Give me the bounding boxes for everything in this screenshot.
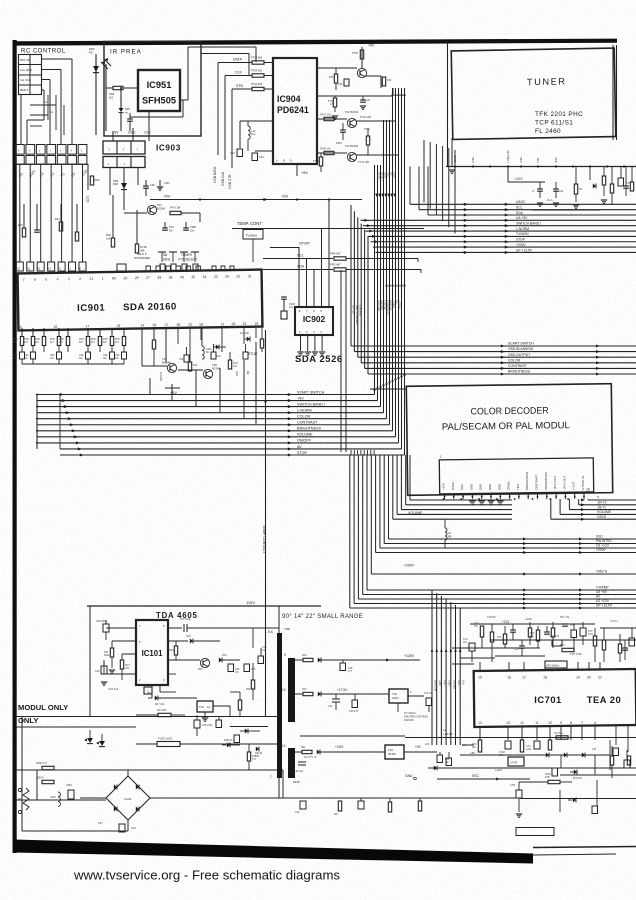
svg-text:115V: 115V xyxy=(246,600,255,605)
wire decoder pin stub 8 xyxy=(509,493,511,499)
svg-text:+12V: +12V xyxy=(502,620,510,624)
connector keyboard cell top 4 xyxy=(47,145,56,155)
diode below d2 xyxy=(574,769,577,774)
capacitor C7A xyxy=(469,643,475,651)
svg-text:CONTRAST: CONTRAST xyxy=(297,421,318,425)
wire bottom right drop b xyxy=(596,780,598,806)
wire bundle-B line 12 xyxy=(362,455,364,595)
wire psu bottom drops xyxy=(282,770,284,798)
component tuner sub a xyxy=(610,184,613,193)
svg-text:26: 26 xyxy=(225,275,229,279)
svg-text:C07 100p: C07 100p xyxy=(180,618,191,621)
wire bundle-A line 7 xyxy=(392,88,394,431)
resistor R906 base xyxy=(59,222,62,231)
svg-text:L04: L04 xyxy=(462,744,467,747)
IC902 box xyxy=(295,307,333,335)
svg-text:620k: 620k xyxy=(104,654,110,657)
wire resistor bottom 4 xyxy=(58,346,60,353)
ground ic904 x4 xyxy=(332,115,338,117)
wire bundle-B line 14 xyxy=(353,455,355,604)
capacitor extra b701 xyxy=(510,629,516,631)
resistor P06r xyxy=(382,77,385,86)
arrow right-bus -(R-Y) xyxy=(581,503,585,506)
wire trf sec y752 xyxy=(295,751,302,753)
svg-text:PTN 1M: PTN 1M xyxy=(170,206,181,210)
wire right-bus V-RAMP xyxy=(510,589,636,591)
wire ic904 right pin12 xyxy=(317,118,347,120)
svg-text:VOLUME: VOLUME xyxy=(597,510,612,514)
wire keyboard column 6 xyxy=(71,164,73,262)
capacitor C9A psu xyxy=(103,624,109,632)
wire scart-bus OSD OUTPUT xyxy=(358,356,636,358)
svg-text:33: 33 xyxy=(214,275,218,279)
svg-text:21: 21 xyxy=(598,676,602,680)
resistor R14 psu xyxy=(158,713,171,716)
wire decoder pin stub 2 xyxy=(453,493,455,499)
wire ic701 left entry rails xyxy=(452,647,462,649)
svg-text:STANDARD: STANDARD xyxy=(134,256,151,260)
wire resistor bottom 6 xyxy=(87,346,89,353)
capacitor C951 xyxy=(127,118,133,120)
svg-text:TCP 611/S1: TCP 611/S1 xyxy=(535,120,573,127)
wire ic701 bottom long rail xyxy=(430,767,560,769)
arrow bundle-A top 7 xyxy=(391,92,394,96)
svg-text:C6L: C6L xyxy=(559,190,564,193)
svg-text:32: 32 xyxy=(236,274,240,278)
wire pin24 down xyxy=(243,328,245,344)
ground tuner xyxy=(449,169,455,171)
svg-text:V-RAMP: V-RAMP xyxy=(596,586,609,590)
capacitor C17 trf xyxy=(340,663,346,671)
ir arrows into photodiode xyxy=(101,62,108,69)
wire below ic701 rail xyxy=(405,737,636,739)
svg-text:R23: R23 xyxy=(302,654,307,657)
wire bundle-A line 10 xyxy=(401,88,403,449)
svg-text:PT0A 5k6: PT0A 5k6 xyxy=(251,82,263,86)
wire bundle-C line 4 xyxy=(445,599,447,745)
svg-text:D0: D0 xyxy=(169,228,173,232)
svg-text:IC903: IC903 xyxy=(156,144,181,153)
svg-text:↑: ↑ xyxy=(39,148,41,153)
svg-text:85: 85 xyxy=(112,276,116,280)
wire tuner-bus +200V xyxy=(373,246,636,248)
wire bundle-B upper stub 7 xyxy=(370,450,372,455)
svg-text:14: 14 xyxy=(478,721,482,725)
wire stb xyxy=(232,88,252,90)
svg-text:5,6: 5,6 xyxy=(268,630,273,634)
svg-text:SDA 2526: SDA 2526 xyxy=(295,353,343,364)
wire ic701 bottom pin 13 xyxy=(507,726,509,740)
wire bundle-B upper stub 1 xyxy=(350,450,352,455)
svg-text:A.C/AC: A.C/AC xyxy=(159,372,163,381)
svg-text:FL 2460: FL 2460 xyxy=(535,128,561,135)
svg-text:SDA 20160: SDA 20160 xyxy=(123,301,177,313)
svg-text:36: 36 xyxy=(176,323,180,327)
svg-text:PS1: PS1 xyxy=(169,225,174,229)
wire keyboard column 3 xyxy=(40,164,42,262)
wire trf top feed xyxy=(278,606,280,634)
svg-text:16: 16 xyxy=(507,676,511,680)
svg-text:4707 F?08: 4707 F?08 xyxy=(570,653,582,656)
frame top border line xyxy=(15,39,617,46)
svg-text:90° 14″ 22″ SMALL RANGΕ: 90° 14″ 22″ SMALL RANGΕ xyxy=(282,614,363,620)
svg-text:+5V: +5V xyxy=(281,194,289,199)
svg-text:PR9: PR9 xyxy=(109,92,115,96)
diode tun4 xyxy=(593,183,596,188)
svg-text:MODUL ONLY: MODUL ONLY xyxy=(18,703,68,712)
wire matrix row2 xyxy=(42,69,62,71)
wire ic101 left pin b xyxy=(112,640,136,642)
capacitor bottom1 xyxy=(300,801,306,809)
wire ic701 bottom pin 14 xyxy=(479,726,481,740)
svg-text:P40: P40 xyxy=(387,79,392,82)
svg-text:7: 7 xyxy=(23,278,25,282)
wire +5v row xyxy=(150,199,362,201)
svg-text:GND: GND xyxy=(488,484,492,490)
svg-text:4k7: 4k7 xyxy=(24,341,29,344)
svg-text:C90: C90 xyxy=(179,359,184,361)
capacitor C914 xyxy=(110,352,115,359)
wire psu rail2 xyxy=(16,726,136,728)
wire drop to bus f xyxy=(255,342,257,425)
resistor R918 xyxy=(122,337,125,346)
resistor R907 xyxy=(22,228,25,237)
resistor R916 xyxy=(98,337,101,346)
svg-text:100n: 100n xyxy=(499,754,505,757)
svg-text:C47: C47 xyxy=(366,99,371,102)
ground psu t04 xyxy=(202,717,208,719)
wire bundle-B upper stub 5 xyxy=(363,450,365,455)
wire bundle-B line 2 xyxy=(405,455,407,505)
svg-text:+5V: +5V xyxy=(297,396,304,400)
wire +12v stub xyxy=(507,167,509,183)
resistor R917 xyxy=(228,360,231,369)
wire matrix row3 xyxy=(42,79,51,81)
wire bundle-A line 5 xyxy=(386,120,388,419)
svg-text:↑: ↑ xyxy=(60,148,62,153)
capacitor C70Z xyxy=(505,741,511,749)
junction dots +5v rail xyxy=(199,198,201,200)
svg-text:10n: 10n xyxy=(13,357,18,360)
svg-text:PT05: PT05 xyxy=(352,52,359,55)
svg-text:R08: R08 xyxy=(169,649,174,652)
wire row join under ic901 xyxy=(22,363,124,365)
capacitor C07 sym xyxy=(183,624,185,632)
svg-text:8: 8 xyxy=(570,721,572,725)
wire ic903 col b xyxy=(123,168,125,211)
svg-text:10n: 10n xyxy=(79,357,84,360)
wire decoder pin stub 3 xyxy=(462,493,464,499)
svg-text:22n: 22n xyxy=(190,228,195,232)
svg-text:Y OUT: Y OUT xyxy=(572,481,576,490)
wire resistor bottom 3 xyxy=(43,346,45,353)
resistor bottom2 xyxy=(338,801,341,811)
resistor R70d xyxy=(536,630,539,641)
arrow right-bus -(B-Y) xyxy=(581,508,585,511)
capacitor extra d701 xyxy=(571,630,577,638)
IC701 box xyxy=(474,669,636,727)
wire t01 collector up xyxy=(361,47,363,69)
svg-text:IC904: IC904 xyxy=(277,94,301,104)
svg-text:T04 BC546: T04 BC546 xyxy=(345,144,359,148)
COLOR DECODER box xyxy=(406,384,612,496)
wire psu rail3 xyxy=(16,769,283,771)
wire bundle-A line 4 xyxy=(383,120,385,413)
wire ic701 top pin 18 xyxy=(544,662,546,670)
ground decoder pin 5 xyxy=(479,500,485,502)
svg-text:BRIGHTNESS: BRIGHTNESS xyxy=(297,427,322,431)
svg-text:CTM: CTM xyxy=(510,784,515,787)
svg-text:S1G: S1G xyxy=(443,680,446,685)
svg-text:T93: T93 xyxy=(157,203,162,207)
svg-text:IR PREA: IR PREA xyxy=(110,49,142,56)
wire ic701 top rail4 xyxy=(460,657,495,659)
wire ic902 top pin5 xyxy=(328,200,330,307)
wire right-bus +200V xyxy=(510,552,636,554)
wire SDA b xyxy=(346,269,421,271)
connector keyboard cell bottom 6 xyxy=(68,156,77,165)
wire +5v stub xyxy=(171,384,173,388)
svg-text:·: · xyxy=(39,159,40,163)
wire matrix col extra xyxy=(20,95,22,145)
page edge bar (scan border, left) xyxy=(13,40,17,853)
wire bus-left joiner2 xyxy=(59,395,61,450)
arrow right-bus U4 +5V xyxy=(579,593,583,596)
wire bundle-B line 5 xyxy=(392,455,394,519)
wire bundle left cluster 2 xyxy=(345,270,347,452)
arrow up bundle SWITCH BAND I xyxy=(379,384,382,388)
connector ac input pin1 xyxy=(18,788,21,791)
wire ic701 bottom pin 11 xyxy=(536,726,538,740)
svg-text:SSC: SSC xyxy=(596,535,603,539)
decoder pin strip box xyxy=(439,458,593,494)
wire pin10 down xyxy=(255,328,257,338)
wire ic903 col a xyxy=(109,168,111,196)
bridge diode marks xyxy=(114,784,117,789)
capacitor c701b xyxy=(534,741,540,749)
arrow right-bus +55V H xyxy=(579,572,583,575)
wire right edge pair xyxy=(612,45,614,140)
svg-text:39: 39 xyxy=(157,276,161,280)
coil L10 xyxy=(248,126,250,139)
svg-text:SSC: SSC xyxy=(460,484,464,490)
arrow right-bus PAL/NTSC xyxy=(579,542,583,545)
wire pin50 down xyxy=(200,328,202,340)
svg-text:R70: R70 xyxy=(560,644,565,647)
svg-text:16: 16 xyxy=(53,325,57,329)
wire bundle-C line 3 xyxy=(440,596,442,745)
resistor R27 trf xyxy=(303,692,313,695)
svg-text:L40: L40 xyxy=(592,748,597,751)
arrow up bundle BRIGHTNESS xyxy=(391,378,394,382)
svg-text:R04+: R04+ xyxy=(246,688,252,691)
wire scart-bus bend 2 xyxy=(353,211,355,351)
wire ic701 feed left xyxy=(452,663,474,665)
wire bundle-B upper stub 4 xyxy=(360,450,362,455)
wire bus-left BRIGHTNESS xyxy=(37,430,393,432)
svg-text:31: 31 xyxy=(248,274,252,278)
resistor R74B xyxy=(135,244,138,253)
connector keyboard cell top 7 xyxy=(78,145,87,155)
wire ic101 right pin d xyxy=(168,673,176,675)
wire bundle-B upper stub 6 xyxy=(367,450,369,455)
wire ic701 top pin 17 xyxy=(523,662,525,670)
wire bundle-B line 3 xyxy=(400,455,402,510)
component bottom right small xyxy=(592,806,598,814)
svg-text:SCL: SCL xyxy=(297,254,304,258)
IC901 SDA 20160 label xyxy=(123,301,177,313)
wire rc horizontals xyxy=(30,104,56,106)
svg-text:C2b 470: C2b 470 xyxy=(349,710,359,713)
svg-text:6u8: 6u8 xyxy=(193,364,198,367)
arrows tuner bus left tips xyxy=(364,219,368,222)
arrow up bundle CONTRAST xyxy=(388,380,391,384)
svg-text:10n: 10n xyxy=(50,357,55,360)
resistor extra c701 xyxy=(551,628,554,637)
wire tuner-bus L-NORM xyxy=(366,230,636,232)
svg-text:R8: R8 xyxy=(448,534,452,538)
wire bridge left xyxy=(80,797,106,799)
svg-text:TINT: TINT xyxy=(516,483,520,490)
svg-text:↑: ↑ xyxy=(80,148,82,153)
arrow tuner-bus +200V xyxy=(464,246,468,249)
svg-text:DATA: DATA xyxy=(233,58,242,62)
svg-text:4k7: 4k7 xyxy=(91,341,96,344)
connector pin box 5 above IC901 xyxy=(58,262,65,271)
resistor R70b xyxy=(503,634,506,644)
wire ic701 bottom pin 9 xyxy=(560,726,562,740)
arrow up bundle AV xyxy=(400,374,403,378)
svg-text:9: 9 xyxy=(284,653,286,657)
svg-text:C90: C90 xyxy=(217,356,222,358)
svg-text:STOP: STOP xyxy=(297,451,308,455)
svg-text:+5V: +5V xyxy=(301,171,308,175)
capacitor C18 psu xyxy=(244,664,250,672)
svg-text:GND: GND xyxy=(479,484,483,490)
svg-text:CMR: CMR xyxy=(190,225,196,229)
component right edge cluster b xyxy=(624,760,630,768)
resistor ic904 x2 xyxy=(366,136,369,145)
wire temp cont row xyxy=(232,228,424,230)
wire tuner-bus TV/NON xyxy=(368,235,636,237)
capacitor C913 xyxy=(86,352,91,359)
svg-text:SATURATION: SATURATION xyxy=(544,472,548,490)
resistor b7 extra xyxy=(528,628,531,637)
coil L8 xyxy=(445,528,447,540)
svg-text:R50: R50 xyxy=(329,76,334,79)
resistor R650a xyxy=(42,766,54,769)
wire tuner feed vertical 5 xyxy=(448,148,450,227)
wire bundle-B line 7 xyxy=(383,455,385,544)
capacitor CT bottom xyxy=(516,790,522,798)
svg-text:U4 +5V: U4 +5V xyxy=(596,590,608,594)
arrow scart-bus SCART SWITCH xyxy=(501,344,505,347)
component C77F09 xyxy=(552,640,562,646)
svg-text:+5V: +5V xyxy=(415,745,422,749)
wire tuner sub rail xyxy=(532,209,600,211)
wire decoder pin stub 7 xyxy=(499,493,501,499)
svg-text:PR4 4k7: PR4 4k7 xyxy=(330,252,341,256)
svg-text:C18: C18 xyxy=(251,668,256,671)
svg-text:UP +13,5V: UP +13,5V xyxy=(516,248,533,252)
transistor T903 xyxy=(147,205,156,214)
wire decoder output OSVS xyxy=(550,499,552,519)
wire decoder pin stub 5 xyxy=(481,493,483,499)
svg-text:1: 1 xyxy=(102,277,104,281)
wire ic701 top rail xyxy=(462,647,540,649)
diode D06 psu xyxy=(245,728,248,733)
svg-text:-(B-Y) OUT: -(B-Y) OUT xyxy=(553,476,557,490)
arrow up bundle +5V xyxy=(376,386,379,390)
svg-text:RC CONTROL: RC CONTROL xyxy=(21,49,66,55)
wire scart-bus bend 4 xyxy=(360,224,362,363)
svg-text:START SWITCH: START SWITCH xyxy=(297,390,325,394)
svg-text:AV: AV xyxy=(297,445,302,449)
capacitor C50 xyxy=(344,79,349,86)
arrow bundle-A top 11 xyxy=(403,92,406,96)
wire decoder pin stub 15 xyxy=(574,493,576,499)
resistor R915 xyxy=(86,337,89,346)
svg-text:L-NORM: L-NORM xyxy=(516,227,529,231)
wire bridge right xyxy=(150,797,283,799)
wire bundle-B upper stub 8 xyxy=(373,450,375,455)
svg-text:10n: 10n xyxy=(103,357,108,360)
svg-text:R545 2k2: R545 2k2 xyxy=(320,148,331,151)
IC101 box xyxy=(136,620,168,685)
wire ic904 bottom xyxy=(296,164,298,176)
wire psu bottom rail extension xyxy=(520,798,636,800)
wire ic101 right pin b xyxy=(168,640,188,642)
wire bundle-B upper stub 2 xyxy=(353,450,355,455)
svg-text:10: 10 xyxy=(254,322,258,326)
arrow +125v xyxy=(386,658,390,661)
svg-text:PR3 4k7: PR3 4k7 xyxy=(330,263,341,267)
wire t01 right xyxy=(366,75,381,77)
wire t04 right xyxy=(213,705,230,707)
wire decoder output Y xyxy=(587,499,589,500)
svg-text:A/D+GND: A/D+GND xyxy=(434,680,437,691)
svg-text:60Hz: 60Hz xyxy=(163,257,171,261)
LED opto D650 xyxy=(89,730,91,738)
svg-text:P03: P03 xyxy=(198,668,203,671)
svg-text:STOP: STOP xyxy=(516,238,526,242)
wire drop to bus d xyxy=(219,368,221,413)
svg-text:·: · xyxy=(60,159,61,163)
svg-text:R65: R65 xyxy=(18,798,23,801)
wire bundle-B line 11 xyxy=(366,455,368,590)
capacitor C90y xyxy=(211,352,216,359)
svg-text:GL01: GL01 xyxy=(124,797,132,801)
frame bottom scan bar xyxy=(14,840,533,864)
diode D09 trf xyxy=(317,749,320,754)
wire ic901 pin stub 7 xyxy=(99,328,101,337)
wire psu to ic701 rail xyxy=(437,778,460,780)
capacitor tun2 xyxy=(553,188,559,190)
svg-text:IC902: IC902 xyxy=(303,314,326,324)
box TV/MSA xyxy=(243,230,263,240)
capacitor PS1 xyxy=(162,227,168,229)
wire t02 right xyxy=(356,120,396,122)
resistor PT04 xyxy=(252,61,264,64)
wire below verticals xyxy=(594,755,596,775)
wire keyboard row base xyxy=(15,163,88,165)
wire bus-left vertical joiner xyxy=(36,395,38,449)
wire ic701 bottom pin 8 xyxy=(570,726,572,740)
arrow tuner-bus L-NORM xyxy=(464,230,468,233)
svg-text:3n? P?V 72: 3n? P?V 72 xyxy=(304,756,317,759)
connector keyboard cell bottom 4 xyxy=(47,156,56,165)
diode d06b psu xyxy=(227,742,230,747)
